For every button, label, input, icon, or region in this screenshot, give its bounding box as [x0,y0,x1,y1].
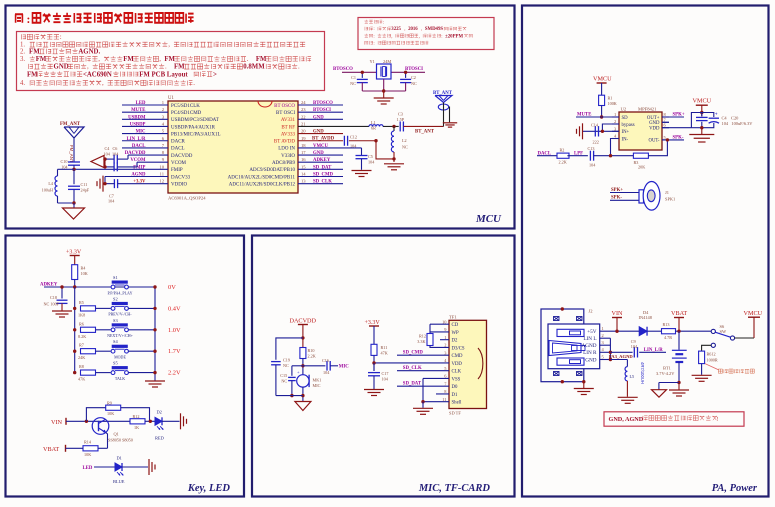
svg-text:104: 104 [108,199,115,204]
svg-text:GND: GND [585,357,596,363]
wire shell gnd [422,402,424,408]
svg-text:BT1: BT1 [663,366,671,371]
svg-text:!: ! [715,416,719,423]
wire C17 gnd [373,376,375,389]
svg-text:2: 2 [614,119,616,124]
svg-text:SD_DAT: SD_DAT [313,165,332,170]
cap loop [691,113,713,128]
ground C17 [364,390,384,396]
wire osc left [342,71,377,73]
svg-text:USBDP/PA4/AUX1R: USBDP/PA4/AUX1R [171,125,216,130]
wire spk+ [610,192,639,194]
svg-text:14: 14 [301,172,306,177]
wire to ground [73,203,75,208]
crystal selection note box [358,18,494,50]
capacitor C3 [399,121,401,131]
svg-text:SD_DAT: SD_DAT [403,382,422,387]
ground triangle FM [63,208,85,219]
svg-text:1.0V: 1.0V [168,327,181,334]
svg-text:C10: C10 [61,159,68,164]
wire D1 to rail [122,466,148,468]
resistor R4 [72,265,78,280]
svg-text:ADC9/SD0DAT/PB10: ADC9/SD0DAT/PB10 [249,168,295,173]
svg-text:DACR: DACR [171,140,186,145]
svg-text:R1: R1 [608,96,613,101]
svg-text:V33IO: V33IO [281,154,295,159]
resistor R3 [633,153,648,158]
capacitor C17 [373,363,375,371]
wire U1 pin12 VDDIO [119,183,168,185]
node FMIP junction [72,168,75,171]
svg-text:SD_CLK: SD_CLK [403,366,422,371]
capacitor C12 [343,136,345,146]
svg-text:CLK: CLK [452,370,462,375]
svg-text:21: 21 [301,121,306,126]
svg-text:100uH: 100uH [42,188,53,193]
wire spk- [610,199,639,201]
svg-text:NEXT/V+/CH+: NEXT/V+/CH+ [107,333,134,338]
svg-text:16: 16 [301,157,306,162]
svg-text:LIN_L/R: LIN_L/R [644,348,663,353]
svg-text:D3/CS: D3/CS [452,346,465,351]
wire MUTE row [576,116,619,118]
wire to R11 [373,326,375,344]
svg-text:CD: CD [452,323,459,328]
wire U1 pin4 [122,125,168,127]
wire key to bus [128,350,155,352]
svg-text:10: 10 [159,164,164,169]
svg-text:NC: NC [402,145,408,150]
wire +5V [600,330,640,332]
wire D2 to rail [162,420,180,422]
svg-text:TF1: TF1 [449,315,457,320]
panel PA Power (right) [522,6,769,497]
svg-text:BT_AVDD: BT_AVDD [312,137,335,142]
svg-text:1K8: 1K8 [78,312,85,317]
svg-text:R11: R11 [381,345,388,350]
wire U1 pin6 [122,140,168,142]
svg-text::: : [383,20,384,25]
svg-text:.: . [165,64,168,71]
wire U1 pin7 [122,147,168,149]
svg-text:C6: C6 [113,146,118,151]
svg-text:S3: S3 [113,318,118,323]
svg-text:Y1: Y1 [370,59,375,64]
svg-text:J1: J1 [665,190,669,195]
svg-text:PA3_AGND: PA3_AGND [609,354,634,359]
svg-text:MUTE: MUTE [131,108,145,113]
wire antenna to ground [448,107,451,122]
wire C18 drop [61,287,63,299]
USB pad [577,372,583,376]
svg-text:0V: 0V [168,284,176,291]
svg-text::: : [373,27,374,32]
svg-text:BLUE: BLUE [113,479,125,484]
inductor L1 [369,125,383,127]
wire U1 pin8 DACVDD [128,154,168,156]
svg-text:SD_CMD: SD_CMD [403,351,424,356]
svg-text:SPK-: SPK- [673,135,684,140]
wire R10 to mic node [302,359,304,375]
svg-text:10K: 10K [107,411,114,416]
svg-text:OUT-: OUT- [648,139,659,144]
svg-text:LPF: LPF [574,151,583,156]
USB glyph middle [549,341,581,356]
capacitor C21 [701,113,703,117]
wire D1 stub [436,393,449,395]
svg-text:C13: C13 [588,146,595,151]
svg-text:R13: R13 [663,322,670,327]
wire C13 to R3 [594,155,634,157]
wire mic bottom [302,387,304,401]
svg-text:AV333: AV333 [281,132,296,137]
svg-text:S2: S2 [113,296,118,301]
svg-text:VMCU: VMCU [593,76,612,83]
wire BT_AVDD to L2 gnd [376,141,394,159]
svg-text:LIN R: LIN R [583,350,597,356]
svg-text:VDD: VDD [452,362,463,367]
note box GND AGND [604,412,744,426]
svg-text:BT OSCO: BT OSCO [274,104,295,109]
wire to key S5 [96,372,111,374]
svg-text:FM: FM [123,56,134,63]
left key bus [74,287,76,373]
panel MCU (top-left) [6,6,515,229]
svg-text:DACV33: DACV33 [171,175,191,180]
svg-text:1K: 1K [134,425,139,430]
svg-text:MIC: MIC [339,365,349,370]
svg-text:SPK1: SPK1 [665,197,675,202]
wire IN+ row [583,130,619,132]
wire AGND row [610,359,627,361]
svg-text:BT AVDD: BT AVDD [274,140,295,145]
ground triangle mic [295,402,311,411]
svg-text:L2: L2 [402,138,407,143]
leader line [705,364,719,370]
wire VMCU drop [701,105,703,116]
svg-text:1: 1 [602,326,604,331]
wire D4 to R13 [648,330,662,332]
svg-text:L5: L5 [630,374,635,379]
wire SD_CMD [397,354,449,356]
MCU U1 body [168,101,298,193]
note text reserve resistor [718,369,754,373]
USB glyph top [557,329,584,336]
wire battery to grounds [678,362,680,383]
key switch S4 [111,349,115,353]
resistor R9 [106,405,121,410]
svg-text:+3.3V: +3.3V [66,250,82,256]
resistor R6 [81,327,96,332]
svg-text:0.8MM: 0.8MM [243,64,265,71]
svg-text:R12: R12 [419,334,426,339]
svg-text:17: 17 [301,150,306,155]
wire R12 to node [145,420,155,422]
svg-text:GND, AGND: GND, AGND [609,416,644,423]
svg-text:ADKEY: ADKEY [313,158,331,163]
svg-text:USBDM: USBDM [128,115,146,120]
svg-text:24K: 24K [78,355,85,360]
svg-text:DACVDD: DACVDD [171,154,193,159]
resistor R8 [81,370,96,375]
svg-text:bypass: bypass [622,123,635,128]
wire R2 to C13 [567,155,588,157]
svg-text:24: 24 [301,100,306,105]
resistor R11 [371,344,377,355]
capacitor C11 [73,169,75,184]
wire OUT- [662,139,684,141]
transistor Q1 [92,418,109,435]
svg-text:FM: FM [29,49,40,56]
wire U1 pin11 AGND [105,176,168,178]
svg-text:VMCU: VMCU [693,98,712,105]
svg-text:R14: R14 [84,440,92,445]
wire R612 gnd [701,364,703,375]
resistor R12 [130,419,145,424]
svg-text:VDD: VDD [649,127,660,132]
svg-text:FM_ANT: FM_ANT [60,122,81,127]
wire U1 pin23 [298,111,343,113]
wire L2 to ground [393,152,395,162]
svg-text:2.2V: 2.2V [168,370,181,377]
svg-text:3.3K: 3.3K [417,339,425,344]
svg-text:P.P/PA4_PLAY: P.P/PA4_PLAY [108,290,133,295]
svg-text:VIN: VIN [51,419,63,426]
svg-text:47K: 47K [381,351,388,356]
ground L2 [384,164,404,170]
wire U1 pin3 [122,118,168,120]
wire U1 pin2 [122,111,168,113]
svg-text:BTOSCI: BTOSCI [405,67,423,72]
wire U1 pin9 VCOM [137,161,168,163]
svg-text:VMCU: VMCU [744,310,763,317]
wire C3 to antenna [403,125,443,127]
svg-text:SD: SD [622,116,629,121]
ground crystal [383,91,385,98]
svg-text:104 100uF/6.3V: 104 100uF/6.3V [722,121,754,126]
svg-text:VSS: VSS [452,377,461,382]
wire U1 pin10 FMIP [74,168,168,170]
wire key to bus [128,307,155,309]
svg-text:2: 2 [602,333,604,338]
svg-text:2.2K: 2.2K [559,160,567,165]
wire L4 branch top [58,168,75,170]
wire antenna down [73,138,75,162]
svg-text:104: 104 [61,164,68,169]
svg-text:±20PPM: ±20PPM [445,34,463,39]
svg-text::: : [373,41,374,46]
svg-text:R7: R7 [79,343,84,348]
node USB shell top [561,307,564,310]
switch S6 [711,329,715,333]
capacitor C15 [288,376,296,378]
capacitor C18 [57,299,68,301]
wire C16 to label [330,365,338,367]
wire to key S4 [96,350,111,352]
svg-text:D0: D0 [452,385,458,390]
svg-text:MCU: MCU [475,213,502,225]
svg-text:+3.3V: +3.3V [365,320,381,326]
svg-text:PA, Power: PA, Power [712,483,758,494]
svg-text::: : [441,34,442,39]
USB glyph bottom [557,358,584,365]
svg-text:47K: 47K [78,377,85,382]
svg-text:C18: C18 [50,295,57,300]
wire VDD row amp [662,127,691,129]
svg-text:MIC, TF-CARD: MIC, TF-CARD [418,483,491,494]
wire L4 branch bottom [58,202,75,204]
wire DACL [537,155,557,157]
wire S6 to VMCU [735,337,754,339]
ground TF shell [413,408,433,414]
svg-text:GND: GND [313,130,324,135]
svg-text:2016: 2016 [408,27,418,32]
svg-text:S4: S4 [113,339,118,344]
svg-text:SS8050 S8050: SS8050 S8050 [108,438,133,443]
wire crystal bottom [383,79,385,91]
resistor R612 [699,351,705,364]
ground rotated left of C7 [97,176,103,192]
svg-text:J2: J2 [589,309,594,314]
wire R9 down [121,408,150,422]
wire osc right [391,71,425,73]
svg-text:LED: LED [136,101,146,106]
svg-text:104: 104 [382,377,389,382]
svg-text:FM: FM [164,56,175,63]
wire battery gnd [678,383,680,390]
wire +3.3V to R4 [74,256,76,265]
wire U1 pin20 [298,133,343,135]
wire OUT+ [662,116,684,118]
wire to key S3 [96,329,111,331]
amp U2 body [619,112,662,150]
wire Q1 emitter to R14 [106,433,108,449]
ground C18 [52,311,72,317]
svg-text:VCOM: VCOM [171,161,187,166]
wire DACVDD down [302,325,304,348]
svg-text:SW: SW [720,329,727,334]
ground bars C14 [577,123,583,139]
svg-text:NC: NC [281,379,287,384]
svg-text:C16: C16 [322,358,329,363]
svg-text:,: , [419,34,420,39]
wire LIN to C9 [610,351,632,353]
svg-text:AC6901A_QSOP24: AC6901A_QSOP24 [168,196,206,201]
battery BT1 [678,331,680,350]
svg-text:.: . [247,56,250,63]
title note red CJK [15,14,23,23]
svg-text:12: 12 [159,179,164,184]
svg-text:IN4148: IN4148 [639,315,653,320]
TF card connector TF1 [449,320,487,408]
svg-text:BT RF: BT RF [281,125,295,130]
svg-text:AV331: AV331 [281,118,296,123]
svg-text:104: 104 [323,370,330,375]
svg-text:FM: FM [256,56,267,63]
inductor L4 [57,169,59,176]
svg-text:+: + [715,112,718,117]
wire C9 out [639,351,666,353]
resistor R13 [662,329,676,334]
wire R1 to MUTE [601,106,603,118]
wire U1 pin16 [298,161,343,163]
ground key bus [145,381,165,387]
svg-text:222: 222 [593,140,599,145]
svg-text:BTOSCO: BTOSCO [333,67,353,72]
svg-text:MIC: MIC [313,383,321,388]
svg-text:C2: C2 [411,75,416,80]
wire ADKEY row [44,286,155,288]
svg-text:,: , [421,27,422,32]
key switch S1 [111,285,115,289]
ground bars D2 [181,413,187,429]
svg-text:PREV/V-/CH-: PREV/V-/CH- [108,312,132,317]
wire VMCU down to C5 [361,148,363,156]
svg-text:C11: C11 [81,182,88,187]
FM antenna [64,127,84,138]
svg-text:AGND: AGND [582,343,597,349]
wire IN- drop [611,139,620,156]
svg-text:R9: R9 [107,401,112,406]
wire CD/WP tie [430,323,449,325]
svg-text:4.7R: 4.7R [664,335,672,340]
resistor R5 [81,306,96,311]
wire U1 pin14 [298,176,343,178]
capacitor C7 [113,179,115,188]
svg-text:,: , [98,56,100,63]
AGND triangle [91,156,104,168]
svg-text:,: , [404,27,405,32]
USB body [548,324,600,369]
svg-text:SD_CLK: SD_CLK [313,180,332,185]
svg-text:MPF8421: MPF8421 [638,107,657,112]
LED D1 [115,463,122,471]
svg-text:FM_ANT: FM_ANT [69,145,74,163]
svg-text:BTOSCO: BTOSCO [313,101,333,106]
svg-text:+5V: +5V [587,329,597,335]
wire S6 low to R612 [702,345,712,351]
svg-text:C17: C17 [382,371,389,376]
resistor R1 [599,95,605,105]
svg-text:FMIP: FMIP [171,168,183,173]
wire R3 to OUT- [648,140,667,156]
wire antenna feed [443,103,445,127]
speaker J1 [639,190,644,203]
svg-text:OUT+: OUT+ [647,116,660,121]
svg-text:11: 11 [442,397,446,402]
svg-text:1.7V: 1.7V [168,348,181,355]
svg-text:VBAT: VBAT [671,310,687,317]
svg-text:VDDIO: VDDIO [171,182,187,187]
svg-text::: : [60,34,62,41]
svg-text:2.2K: 2.2K [308,354,316,359]
svg-text:3225: 3225 [391,27,401,32]
svg-text:C19: C19 [283,358,290,363]
wire mic node right [303,365,326,367]
node VIN [85,420,88,423]
ground battery [669,390,689,396]
svg-text:SD TF: SD TF [449,411,461,416]
svg-text:TALK: TALK [115,376,125,381]
notes text [21,34,59,39]
capacitor C10 [68,161,80,163]
node D2 [149,420,152,423]
wire shell row [423,401,449,403]
resistor R12 tf [427,334,433,346]
svg-text:BT_ANT: BT_ANT [415,130,435,135]
svg-text::: : [27,14,31,26]
wire U1 pin5 [122,133,168,135]
